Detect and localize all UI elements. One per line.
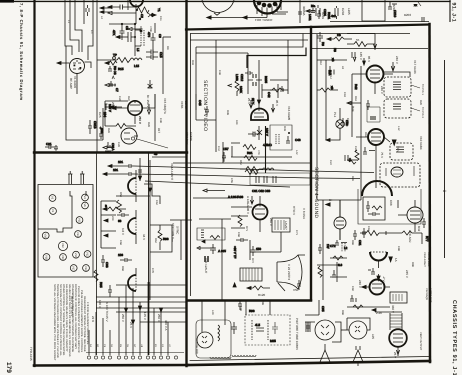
svg-text:NO SIGNAL INPUT. CONTRAST CONT: NO SIGNAL INPUT. CONTRAST CONTROL AT MIN… <box>59 284 62 356</box>
ps connector socket <box>196 300 231 358</box>
svg-text:55: 55 <box>356 38 360 42</box>
svg-text:+8: +8 <box>348 158 352 162</box>
svg-text:R58: R58 <box>119 192 122 197</box>
svg-text:85 V: 85 V <box>367 56 371 62</box>
svg-text:R120: R120 <box>258 293 266 297</box>
capacitor <box>251 246 256 256</box>
resistor vert <box>235 76 239 96</box>
svg-text:CONN: CONN <box>189 132 193 141</box>
svg-text:L42: L42 <box>295 150 298 155</box>
svg-text:R22: R22 <box>127 96 130 101</box>
phase box <box>197 228 225 240</box>
wire <box>250 240 281 260</box>
svg-text:RF AMP: RF AMP <box>69 78 73 89</box>
svg-text:R68: R68 <box>121 266 124 271</box>
wire <box>298 0 302 23</box>
svg-text:34 V: 34 V <box>142 234 146 240</box>
svg-text:R9: R9 <box>166 46 169 50</box>
mixer cluster x116-160 <box>97 0 171 94</box>
wire <box>70 0 79 52</box>
wire bus <box>134 166 374 173</box>
svg-text:Y1: Y1 <box>157 8 161 12</box>
svg-text:L8: L8 <box>341 66 344 69</box>
svg-text:B203: B203 <box>404 13 411 17</box>
svg-text:B32: B32 <box>417 226 421 232</box>
svg-text:AUDIO OUT: AUDIO OUT <box>429 288 432 303</box>
svg-text:C71: C71 <box>295 230 298 235</box>
resistor <box>117 200 122 213</box>
antenna arrow <box>57 62 61 65</box>
resistor <box>246 167 259 172</box>
svg-text:Ma: Ma <box>311 4 315 8</box>
wire <box>116 284 186 286</box>
B+ bus <box>148 152 150 282</box>
svg-text:V12 6AQ5: V12 6AQ5 <box>425 288 428 301</box>
vert output transformer box <box>272 218 290 252</box>
svg-text:L2: L2 <box>100 16 103 19</box>
svg-text:C57: C57 <box>223 147 229 151</box>
svg-text:L5: L5 <box>136 48 140 52</box>
wire <box>77 62 91 94</box>
caps cluster <box>317 10 321 19</box>
wire <box>162 37 164 94</box>
svg-text:L1: L1 <box>67 20 70 23</box>
svg-text:V14A 12BH7: V14A 12BH7 <box>170 163 174 181</box>
svg-text:100K: 100K <box>239 86 243 93</box>
capacitor cluster top <box>86 5 112 16</box>
vert out transformer ladder <box>375 312 402 330</box>
svg-text:VALUES LESS THAN 1 IN MF AND A: VALUES LESS THAN 1 IN MF AND ABOVE 1 IN … <box>68 284 71 357</box>
speaker triangle <box>353 346 363 366</box>
resistor <box>318 266 322 278</box>
capacitor <box>306 322 310 332</box>
diode <box>138 176 141 180</box>
section divider horizontal y300 <box>187 299 311 301</box>
svg-text:V16 6AW8: V16 6AW8 <box>287 106 291 121</box>
wire <box>248 79 262 81</box>
svg-text:1A: 1A <box>394 258 398 262</box>
svg-text:917: 917 <box>157 128 161 133</box>
trap box <box>270 125 292 150</box>
wire <box>280 232 282 252</box>
wire <box>125 285 127 355</box>
capacitor C16 <box>146 55 158 59</box>
wire <box>116 195 150 197</box>
coil <box>262 168 274 170</box>
svg-text:R64: R64 <box>154 238 157 243</box>
svg-text:V16: V16 <box>44 234 47 239</box>
section divider vertical x311 <box>310 27 312 300</box>
right margin rule top <box>449 0 451 22</box>
wire <box>139 158 141 181</box>
resistor vert <box>158 230 162 242</box>
svg-text:C14: C14 <box>329 74 332 79</box>
resistor <box>320 88 330 92</box>
wire bus <box>196 52 248 54</box>
right margin rule <box>444 60 446 258</box>
wire s-curve <box>144 184 160 204</box>
wire <box>270 70 288 94</box>
arrow 246V <box>391 62 395 71</box>
wire <box>247 53 249 94</box>
misc wires sound section <box>311 32 428 200</box>
caps row <box>256 176 276 183</box>
svg-text:A 12GJA08: A 12GJA08 <box>228 195 244 199</box>
svg-text:L05: L05 <box>371 334 375 339</box>
svg-text:B+ 250 V: B+ 250 V <box>146 95 150 107</box>
sound IF cans dashed <box>384 77 411 118</box>
svg-text:320 V A: 320 V A <box>164 320 168 331</box>
section divider horizontal y27 right half <box>186 25 429 30</box>
tube V8 <box>250 196 267 232</box>
svg-text:A 160 TO 65 V: A 160 TO 65 V <box>105 302 109 322</box>
capacitor <box>103 172 134 176</box>
wire <box>325 60 327 140</box>
sound IF tube V17 <box>352 62 395 94</box>
svg-text:25 V: 25 V <box>393 352 397 358</box>
tube V1 <box>70 59 85 74</box>
audio det components around x330-347 y240-282 <box>330 240 347 248</box>
svg-text:C31B: C31B <box>93 121 97 129</box>
wire <box>134 24 136 56</box>
svg-text:V13: V13 <box>84 266 87 271</box>
svg-text:V14: V14 <box>76 232 79 237</box>
wire <box>150 225 172 252</box>
svg-text:7, 8-P Chassis 91, Schematic D: 7, 8-P Chassis 91, Schematic Diagram <box>19 3 24 101</box>
arrow <box>202 240 205 243</box>
svg-text:68: 68 <box>118 219 122 223</box>
video upper extra <box>196 48 306 111</box>
svg-text:4L5: 4L5 <box>255 323 260 327</box>
half tube V20A <box>128 210 136 244</box>
svg-text:C4: C4 <box>90 30 93 34</box>
sync input caps <box>103 152 186 211</box>
half tube V20B <box>128 268 136 291</box>
chart box <box>38 185 93 278</box>
svg-text:PLUS OR MINUS 10 PERCENT AT SO: PLUS OR MINUS 10 PERCENT AT SOCKETS. WID… <box>77 286 80 353</box>
svg-text:TO PIN 3: TO PIN 3 <box>421 107 424 118</box>
svg-text:250 V: 250 V <box>138 116 142 124</box>
svg-text:V 22 21EP4: V 22 21EP4 <box>287 264 291 280</box>
wire <box>326 108 340 140</box>
svg-text:HTO V: HTO V <box>292 206 296 215</box>
svg-text:R99: R99 <box>261 300 264 305</box>
capacitor C15 <box>146 50 158 55</box>
svg-text:A 12GJA08 V: A 12GJA08 V <box>246 196 250 214</box>
svg-text:V15: V15 <box>78 218 81 223</box>
caps bottom <box>205 256 208 262</box>
svg-text:C21: C21 <box>46 142 52 146</box>
box top right <box>362 0 385 21</box>
capacitor <box>245 71 253 75</box>
capacitor <box>54 145 58 151</box>
svg-text:V10 6AB4: V10 6AB4 <box>419 136 423 150</box>
arrow 25V <box>249 100 252 108</box>
cathode vertical <box>265 126 267 173</box>
wire <box>215 40 217 152</box>
svg-text:C5: C5 <box>125 26 129 30</box>
resistor row <box>360 231 392 236</box>
wire bus <box>190 39 308 41</box>
svg-text:xB: xB <box>330 86 334 90</box>
svg-text:C210: C210 <box>393 10 397 18</box>
wire <box>221 219 223 300</box>
horiz osc tube V13 <box>398 200 423 232</box>
wire <box>97 59 117 61</box>
svg-text:C61 C62 C63: C61 C62 C63 <box>252 189 271 193</box>
wire <box>231 207 252 228</box>
wire long y48 <box>311 48 428 50</box>
wire <box>195 47 197 94</box>
svg-text:101: 101 <box>113 168 118 172</box>
capacitor pair <box>253 74 256 86</box>
svg-text:C22: C22 <box>354 146 357 151</box>
tube V4 bottom arc <box>130 0 143 7</box>
svg-text:C66: C66 <box>119 240 122 245</box>
svg-text:VERT OUTPUT: VERT OUTPUT <box>419 332 422 351</box>
wire <box>96 296 186 298</box>
svg-text:101: 101 <box>118 160 123 164</box>
svg-text:L208: L208 <box>235 74 239 81</box>
svg-text:TERMINALS TO CHASSIS GND. LINE: TERMINALS TO CHASSIS GND. LINE VOLTAGE 1… <box>56 284 59 358</box>
svg-text:B: B <box>105 204 107 208</box>
svg-text:FOR TUNER: FOR TUNER <box>255 18 273 22</box>
svg-text:25 V: 25 V <box>251 98 255 104</box>
can coils <box>393 82 420 111</box>
capacitor <box>318 244 322 254</box>
svg-text:22K: 22K <box>111 216 114 221</box>
capacitor <box>45 145 55 149</box>
wire <box>134 115 136 124</box>
capacitor <box>210 244 216 254</box>
svg-text:R15: R15 <box>118 67 124 71</box>
svg-text:R6: R6 <box>321 42 325 46</box>
capacitor <box>353 230 357 240</box>
wire <box>135 4 137 24</box>
wire bus <box>196 34 303 48</box>
svg-text:135 V: 135 V <box>143 312 147 320</box>
wire heavy <box>247 48 306 69</box>
resistor row <box>103 207 126 211</box>
terminal tie line <box>86 352 184 354</box>
left border <box>33 0 35 366</box>
section divider vertical x186 <box>185 0 187 366</box>
top black bar <box>0 0 14 3</box>
middle column components <box>94 255 112 297</box>
capacitor <box>108 164 134 168</box>
wire y21 <box>330 21 429 23</box>
svg-text:SECTION 3–VIDEO: SECTION 3–VIDEO <box>202 80 208 131</box>
svg-text:ROTATION OF CONTROLS. ALL VOLT: ROTATION OF CONTROLS. ALL VOLTAGES MAY V… <box>74 284 77 349</box>
left column resistors <box>231 207 281 260</box>
arrow <box>250 196 253 204</box>
diode arrow <box>257 130 262 135</box>
half tube V14A <box>128 170 136 202</box>
svg-text:470: 470 <box>257 150 260 155</box>
svg-text:C33: C33 <box>105 262 109 268</box>
converter area mid <box>66 46 115 153</box>
svg-text:V2: V2 <box>51 196 54 200</box>
wire <box>193 197 231 199</box>
wire <box>317 264 340 266</box>
cap arrow right2 <box>105 76 119 92</box>
svg-text:V15B: V15B <box>180 101 184 108</box>
wire <box>118 297 120 355</box>
tube in box <box>386 166 414 177</box>
wire <box>153 23 155 60</box>
tube V16 <box>249 100 274 140</box>
svg-text:245 V: 245 V <box>405 270 409 278</box>
svg-text:10K: 10K <box>235 120 238 125</box>
wire <box>392 232 422 234</box>
capacitor C31B <box>88 120 92 134</box>
capacitor <box>341 118 347 127</box>
svg-text:48: 48 <box>154 152 158 156</box>
tube V? bottom <box>389 329 407 356</box>
svg-text:R88: R88 <box>163 237 169 241</box>
B+ arrow <box>326 203 330 206</box>
svg-text:C2: C2 <box>140 14 144 18</box>
resistor <box>210 236 220 240</box>
wire <box>347 34 375 39</box>
svg-text:1401: 1401 <box>308 14 312 21</box>
svg-text:100 V: 100 V <box>265 128 269 136</box>
svg-text:V13A 12AU7: V13A 12AU7 <box>423 252 426 267</box>
coil <box>276 134 279 144</box>
svg-text:Hb: Hb <box>337 33 341 37</box>
wire <box>102 108 104 140</box>
svg-text:V1: V1 <box>51 209 54 213</box>
svg-text:R39: R39 <box>226 110 229 115</box>
wire <box>345 155 348 161</box>
capacitor <box>108 285 112 297</box>
resistor arrow right1 <box>105 61 117 75</box>
svg-text:C25: C25 <box>98 112 102 118</box>
svg-text:470K: 470K <box>149 26 152 32</box>
svg-text:V18: V18 <box>45 255 48 260</box>
arrow <box>148 188 151 192</box>
svg-text:178 FOR ALIGNMENT DATA NOTES.: 178 FOR ALIGNMENT DATA NOTES. <box>86 302 89 345</box>
capacitor <box>286 136 292 143</box>
wire <box>112 94 155 108</box>
arrow 48 <box>103 146 114 149</box>
svg-text:C98: C98 <box>239 306 242 311</box>
svg-text:C36: C36 <box>218 70 221 75</box>
label 185V <box>105 104 108 110</box>
svg-text:C201: C201 <box>323 9 327 17</box>
svg-text:R77: R77 <box>425 236 429 242</box>
svg-text:V12: V12 <box>86 252 89 257</box>
bottom border left <box>34 364 188 367</box>
wire <box>163 36 171 38</box>
svg-text:R71: R71 <box>245 226 248 231</box>
svg-text:C70: C70 <box>151 268 154 273</box>
svg-text:240 V: 240 V <box>358 280 362 288</box>
wire <box>149 160 151 300</box>
svg-text:R3 C3: R3 C3 <box>113 66 117 75</box>
wire <box>317 199 361 201</box>
svg-text:PULSE VOLTAGES SHOWN BY SCOPE.: PULSE VOLTAGES SHOWN BY SCOPE. CONTROLS <box>80 290 83 352</box>
sync box right <box>170 220 192 260</box>
svg-text:B205: B205 <box>264 76 268 83</box>
svg-text:95 V: 95 V <box>275 100 279 106</box>
svg-text:300MA: 300MA <box>302 6 306 16</box>
wire <box>96 307 186 309</box>
bottom border right <box>188 361 430 365</box>
wire <box>351 74 353 137</box>
svg-text:L205: L205 <box>347 8 351 15</box>
wire bus <box>134 174 360 179</box>
svg-text:R12: R12 <box>319 60 322 65</box>
wire <box>190 34 192 297</box>
svg-text:R35: R35 <box>99 282 103 288</box>
capacitor <box>236 238 248 242</box>
wire <box>322 200 324 300</box>
pointer line <box>137 139 168 148</box>
components below <box>368 268 380 281</box>
box under <box>363 197 385 220</box>
wire <box>421 233 423 244</box>
wire <box>160 312 162 355</box>
svg-text:R61: R61 <box>247 151 253 155</box>
capacitor plus <box>99 127 103 140</box>
svg-text:C28: C28 <box>117 142 120 147</box>
dashed box focus <box>245 315 290 345</box>
capacitor <box>328 66 334 75</box>
resistor <box>402 231 412 235</box>
wire <box>66 94 103 140</box>
caps row above y152 border <box>45 142 58 151</box>
svg-text:C84: C84 <box>367 226 370 231</box>
wire arrow 2 <box>108 12 136 15</box>
caps <box>352 52 355 58</box>
svg-text:R20: R20 <box>419 100 422 105</box>
svg-text:L12: L12 <box>397 126 400 131</box>
can coils <box>396 147 404 152</box>
audio amp dashed box <box>380 163 420 187</box>
tube V2 tuner <box>202 0 234 15</box>
resistor R7 <box>117 58 130 63</box>
wire bus video <box>173 162 310 164</box>
svg-text:R42: R42 <box>354 84 358 90</box>
svg-text:R20 V TO 65 V: R20 V TO 65 V <box>70 296 74 316</box>
wire <box>199 218 231 220</box>
svg-text:C42: C42 <box>267 92 271 98</box>
terminal strip labels <box>89 344 171 348</box>
dashed can 3 <box>390 143 413 160</box>
tube V15 <box>112 80 155 124</box>
svg-text:100 V: 100 V <box>218 249 226 253</box>
capacitor <box>422 218 426 228</box>
svg-text:C81: C81 <box>358 240 362 246</box>
svg-text:C15: C15 <box>159 52 163 58</box>
wire cluster <box>330 246 348 282</box>
wire box <box>105 101 128 126</box>
jack box left <box>101 201 116 248</box>
svg-text:V10: V10 <box>74 253 77 258</box>
svg-text:48: 48 <box>106 150 110 154</box>
wire bus <box>190 33 410 35</box>
svg-text:25 V: 25 V <box>247 98 251 104</box>
svg-text:TO PIN 1: TO PIN 1 <box>421 84 424 95</box>
wire <box>152 156 186 158</box>
svg-text:C92: C92 <box>351 286 354 291</box>
bead row 1 <box>210 357 231 359</box>
wire bus <box>145 181 290 187</box>
resistor <box>244 156 257 161</box>
capacitor C5 <box>120 24 125 40</box>
wire <box>397 200 399 208</box>
